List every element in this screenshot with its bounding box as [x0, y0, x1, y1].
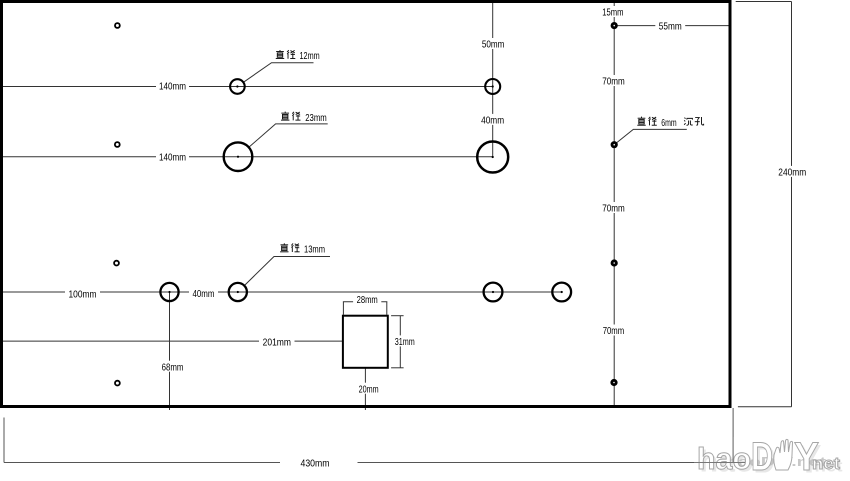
label 68mm [158, 361, 187, 374]
square cutout 28x31 [343, 316, 388, 368]
svg-text:140mm: 140mm [159, 81, 186, 93]
counterbore hole 3 [612, 261, 616, 265]
leader for 23mm label [249, 124, 328, 147]
label 201mm [259, 336, 295, 349]
hole circle C4 [552, 283, 571, 302]
label 28mm [353, 293, 381, 306]
svg-text:70mm: 70mm [603, 325, 625, 337]
dimension 28mm bracket [343, 302, 387, 315]
label 15mm [599, 6, 627, 19]
label 70mm middle [599, 202, 629, 215]
hole circle A1 dia12 [230, 79, 245, 94]
svg-text:70mm: 70mm [602, 203, 625, 215]
hole circle B2 [477, 142, 508, 173]
svg-text:13mm: 13mm [304, 244, 325, 256]
label 40mm vertical [478, 114, 508, 127]
svg-text:50mm: 50mm [482, 39, 505, 51]
label dia 12mm [276, 50, 320, 62]
leader for 12mm label [243, 63, 313, 83]
label 50mm [478, 38, 507, 51]
label 100mm [65, 288, 100, 301]
wire row-B horizontal line y156.7 [0, 156, 493, 158]
wire 55mm line y25.6 [614, 25, 730, 27]
svg-text:23mm: 23mm [305, 112, 327, 124]
label 31mm [391, 335, 418, 348]
counterbore hole 1 [612, 23, 616, 27]
counterbore hole 2 [612, 143, 616, 147]
label dia 23mm [281, 112, 327, 124]
label 240mm [775, 166, 810, 179]
svg-text:31mm: 31mm [395, 336, 415, 348]
svg-text:201mm: 201mm [263, 336, 292, 348]
small mount hole ring 1 [115, 23, 120, 28]
hole circle B1 dia23 [224, 142, 253, 171]
leader for 6mm counterbore label [617, 129, 687, 142]
counterbore hole 4 [612, 380, 616, 384]
panel outline border [2, 2, 731, 407]
small mount hole ring 2 [115, 142, 120, 147]
svg-text:240mm: 240mm [778, 167, 806, 179]
wire vertical 68mm line x169.5 [169, 292, 171, 410]
hole circle C2 [229, 283, 247, 301]
svg-text:40mm: 40mm [193, 288, 215, 300]
svg-text:net: net [812, 454, 840, 473]
dimension 240mm lines [736, 2, 792, 407]
watermark hand icon [774, 439, 793, 470]
leader for 13mm label [244, 257, 330, 286]
svg-text:430mm: 430mm [301, 458, 330, 470]
label 70mm top [599, 75, 629, 88]
svg-text:D: D [751, 435, 773, 479]
label 20mm [355, 383, 382, 396]
svg-text:100mm: 100mm [69, 289, 97, 301]
svg-text:70mm: 70mm [602, 76, 625, 88]
label 55mm [655, 20, 685, 33]
wire row-A horizontal line y86.5 [0, 86, 493, 88]
label 40mm row C [189, 287, 218, 300]
svg-text:68mm: 68mm [162, 361, 184, 373]
small mount hole ring 4 [115, 381, 120, 386]
hole circle C3 [484, 283, 503, 302]
label 140mm row B [156, 151, 189, 164]
small mount hole ring 3 [114, 261, 119, 266]
wire vertical hole column x614.2 [613, 3, 615, 405]
wire vertical centerline x492.7 [492, 3, 494, 157]
wire 201mm horizontal line y341 [0, 340, 343, 342]
hole circle A2 [485, 79, 500, 94]
dimension 31mm bracket [391, 316, 404, 368]
label 70mm bottom [599, 325, 628, 338]
wire vertical 20mm line x365.4 [364, 368, 366, 410]
svg-text:hao: hao [697, 441, 751, 476]
svg-text:28mm: 28mm [357, 294, 378, 306]
watermark haoDIY.net [697, 435, 843, 481]
svg-text:55mm: 55mm [659, 21, 682, 33]
svg-text:20mm: 20mm [359, 383, 379, 395]
svg-text:40mm: 40mm [481, 115, 504, 127]
svg-text:140mm: 140mm [159, 151, 186, 163]
wire row-C horizontal line y292 [0, 291, 562, 293]
dimension 430mm lines [4, 408, 733, 463]
hole circle C1 dia13 [160, 283, 178, 301]
svg-text:6mm: 6mm [661, 117, 677, 129]
label 140mm row A [156, 80, 189, 93]
label 430mm [301, 458, 330, 470]
label dia 6mm counterbore [637, 117, 703, 129]
svg-text:12mm: 12mm [300, 50, 320, 62]
label dia 13mm [280, 243, 325, 255]
svg-text:15mm: 15mm [602, 7, 623, 19]
wire 430mm right tick visible through watermark [732, 437, 734, 463]
wire 430mm dim line visible through watermark [694, 462, 745, 464]
